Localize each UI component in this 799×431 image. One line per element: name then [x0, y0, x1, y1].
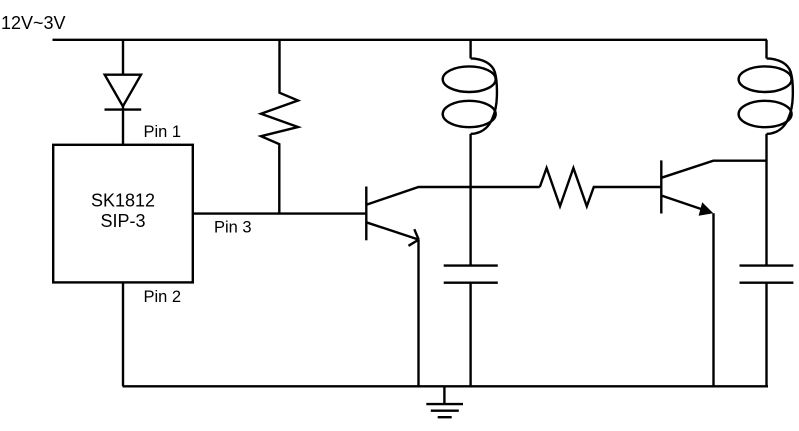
svg-text:SK1812: SK1812 — [91, 191, 155, 211]
svg-text:Pin 1: Pin 1 — [144, 123, 182, 141]
svg-text:12V~3V: 12V~3V — [1, 13, 66, 33]
svg-text:Pin 3: Pin 3 — [214, 218, 252, 236]
svg-text:SIP-3: SIP-3 — [100, 211, 145, 231]
svg-text:Pin 2: Pin 2 — [144, 288, 182, 306]
